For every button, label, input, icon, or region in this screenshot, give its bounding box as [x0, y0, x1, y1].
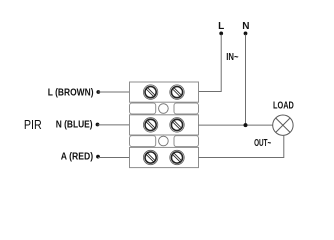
svg-text:PIR: PIR	[24, 117, 42, 132]
node dot A red	[96, 155, 100, 159]
lamp LOAD symbol	[273, 115, 293, 135]
wire from N down to junction	[245, 35, 247, 126]
node L (dot)	[219, 32, 223, 36]
joint piece 1	[130, 103, 199, 114]
terminal block 2 (N blue)	[130, 115, 199, 135]
node N (dot)	[244, 32, 248, 36]
svg-text:OUT~: OUT~	[254, 138, 271, 149]
svg-text:L (BROWN): L (BROWN)	[48, 87, 94, 98]
svg-text:L: L	[218, 21, 224, 32]
svg-text:A (RED): A (RED)	[61, 151, 93, 162]
svg-text:IN~: IN~	[226, 52, 238, 63]
node dot N blue	[96, 123, 100, 127]
wire block 2 to lamp	[199, 124, 273, 126]
junction dot N/lamp	[244, 123, 248, 127]
svg-text:N: N	[242, 21, 249, 32]
wire from L down to block 1	[199, 35, 222, 92]
wire L brown to block 1	[98, 91, 129, 93]
wire block 3 to lamp bottom	[199, 135, 284, 157]
svg-text:LOAD: LOAD	[273, 101, 294, 112]
terminal block 3 (A red)	[130, 147, 199, 167]
node dot L brown	[96, 90, 100, 94]
terminal block 1 (L brown)	[130, 82, 199, 102]
wire N blue to block 2	[98, 124, 130, 126]
svg-text:N (BLUE): N (BLUE)	[56, 120, 93, 131]
joint piece 2	[130, 136, 199, 147]
wire A red to block 3	[98, 157, 130, 159]
